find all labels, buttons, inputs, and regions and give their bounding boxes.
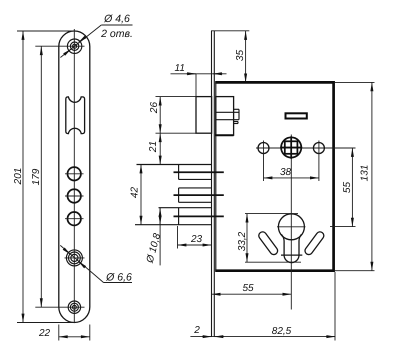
deadbolt rod 2 bbox=[174, 194, 224, 196]
svg-text:131: 131 bbox=[360, 165, 371, 182]
dimension 23 bbox=[178, 226, 212, 249]
svg-text:2: 2 bbox=[193, 325, 200, 336]
fixing hole left bbox=[258, 141, 269, 182]
label d4.6 bbox=[103, 13, 130, 25]
dimension 82.5 and 2 bbox=[190, 325, 335, 337]
lock case left wall bbox=[215, 82, 217, 270]
svg-text:82,5: 82,5 bbox=[272, 326, 292, 337]
svg-text:179: 179 bbox=[31, 168, 42, 185]
screw hole bottom bbox=[68, 301, 80, 313]
latch head (outside faceplate) bbox=[196, 97, 212, 134]
svg-text:42: 42 bbox=[129, 187, 140, 199]
svg-text:35: 35 bbox=[235, 50, 246, 62]
latch window (bobbin cutout) bbox=[66, 97, 85, 134]
dimension 55 vertical bbox=[326, 148, 356, 227]
dimension 38 bbox=[264, 167, 319, 178]
svg-text:55: 55 bbox=[242, 283, 254, 294]
hole bottom horizontal crosshair / ext line 179 bbox=[35, 306, 84, 308]
slot rectangle in case bbox=[286, 113, 307, 118]
deadbolt pin circle 1 bbox=[65, 167, 84, 180]
deadbolt pin circle 2 bbox=[65, 189, 84, 202]
ext line plate bottom bbox=[17, 322, 75, 324]
svg-text:11: 11 bbox=[175, 63, 185, 74]
spindle square + circle bbox=[280, 136, 302, 159]
ext line faceplate top bbox=[211, 30, 249, 32]
latch body (inside case) bbox=[215, 97, 239, 136]
svg-text:2 отв.: 2 отв. bbox=[100, 28, 133, 40]
oval slot right bbox=[303, 230, 325, 256]
faceplate vertical centerline bbox=[73, 29, 75, 323]
fixing hole right bbox=[313, 141, 324, 182]
dimension 21 bbox=[148, 133, 160, 164]
ext line latch bottom bbox=[156, 132, 197, 134]
dimension 55 horizontal bbox=[212, 283, 292, 294]
svg-text:Ø 6,6: Ø 6,6 bbox=[105, 271, 132, 283]
dimension 131 bbox=[335, 82, 375, 270]
lock faceplate edge view (2 lines) bbox=[212, 31, 215, 337]
leader d6.6 bbox=[60, 245, 132, 282]
hole top horizontal crosshair / ext line 179 bbox=[35, 45, 84, 47]
deadbolt lamella 2 bbox=[179, 188, 212, 202]
dimension 42 bbox=[129, 165, 141, 225]
leader d4.6 bbox=[60, 25, 132, 58]
svg-text:22: 22 bbox=[38, 328, 51, 339]
svg-text:21: 21 bbox=[148, 141, 159, 153]
ext line latch top bbox=[156, 96, 197, 98]
faceplate outline (left view, stadium shape) bbox=[59, 31, 90, 322]
dimension 201 bbox=[13, 31, 24, 323]
deadbolt pin circle 3 bbox=[65, 212, 84, 225]
hole d6.6 bbox=[65, 250, 85, 266]
svg-text:201: 201 bbox=[13, 168, 24, 186]
deadbolt lamella 3 bbox=[135, 208, 212, 225]
dimension 33.2 bbox=[237, 214, 301, 263]
screw hole top (d4.6) bbox=[67, 39, 81, 53]
svg-text:Ø 4,6: Ø 4,6 bbox=[103, 13, 130, 25]
svg-text:33,2: 33,2 bbox=[237, 231, 248, 251]
dimension 179 bbox=[31, 46, 42, 307]
deadbolt rod 1 bbox=[174, 171, 224, 173]
svg-text:23: 23 bbox=[190, 234, 203, 245]
ext line plate top bbox=[17, 30, 75, 32]
circles row centerline bbox=[256, 147, 328, 149]
svg-text:26: 26 bbox=[149, 102, 160, 115]
euro cylinder keyhole bbox=[277, 214, 306, 263]
oval slot left bbox=[257, 230, 279, 256]
svg-text:38: 38 bbox=[280, 167, 292, 178]
svg-text:55: 55 bbox=[342, 182, 353, 194]
deadbolt lamella 1 bbox=[137, 165, 212, 180]
lock case body (thick outline) bbox=[215, 82, 333, 270]
dimension d10.8 bbox=[145, 208, 164, 266]
dimension 11 bbox=[171, 63, 227, 97]
dimension 35 bbox=[235, 31, 246, 82]
deadbolt rod 3 bbox=[174, 215, 224, 217]
label 2 otv bbox=[100, 28, 133, 40]
dimension 22 bbox=[38, 325, 90, 341]
dimension 26 bbox=[149, 97, 160, 134]
cylinder vertical centerline bbox=[290, 135, 292, 310]
label d6.6 bbox=[105, 271, 132, 283]
ext line case right bottom bbox=[334, 272, 336, 341]
